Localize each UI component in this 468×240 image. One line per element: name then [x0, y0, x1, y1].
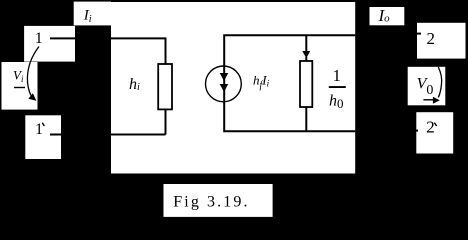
svg-text:1: 1: [35, 121, 43, 138]
svg-text:h0: h0: [329, 93, 344, 111]
svg-text:1: 1: [35, 30, 43, 47]
svg-text:Fig 3.19.: Fig 3.19.: [173, 193, 249, 210]
svg-text:1: 1: [332, 66, 341, 85]
svg-text:2: 2: [426, 117, 435, 136]
svg-text:2: 2: [426, 29, 435, 48]
